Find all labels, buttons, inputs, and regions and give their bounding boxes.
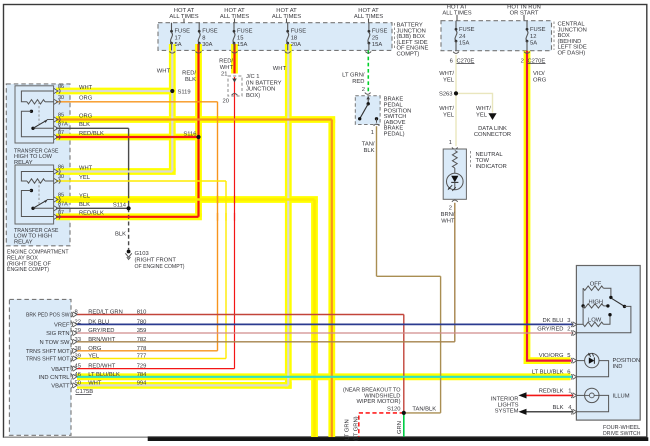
wire LT GRN dashed below S120 (359, 413, 404, 437)
svg-text:21: 21 (221, 71, 227, 78)
svg-text:FUSE: FUSE (202, 28, 218, 35)
wire ORG highlighted vertical (331, 120, 333, 438)
svg-text:YEL: YEL (443, 78, 455, 84)
wire BLK relay 87A vertical (128, 128, 130, 208)
C175B pin45 socket (71, 366, 72, 371)
fuse 18 20A (287, 23, 289, 31)
svg-text:994: 994 (137, 379, 147, 386)
svg-text:HIGH: HIGH (589, 298, 604, 305)
svg-text:29: 29 (75, 327, 81, 334)
bottom-left gray edge (4, 436, 148, 438)
brake pedal position switch box (355, 96, 380, 125)
4wd HIGH resistor (581, 304, 584, 307)
svg-text:INDICATOR: INDICATOR (476, 163, 507, 170)
svg-text:WHT: WHT (79, 165, 93, 171)
svg-text:RED/WHT: RED/WHT (88, 363, 116, 370)
wire RED/LT GRN circuit-810 vertical (403, 315, 405, 413)
indicator exit cup (452, 200, 458, 202)
svg-text:OF ENGINE COMPT): OF ENGINE COMPT) (135, 263, 185, 270)
svg-text:FUSE: FUSE (175, 28, 191, 35)
svg-text:N TOW SW: N TOW SW (39, 339, 70, 346)
relay K1 pin87A chevron (54, 126, 58, 131)
wire DK BLU circuit-780 (77, 323, 574, 325)
svg-text:IND CNTRL: IND CNTRL (39, 374, 71, 381)
wire LT BLU/BLK circuit-784 core (77, 376, 572, 378)
wire RED/BLK relay2 pin87 highlighted (56, 216, 199, 218)
svg-text:VIO/: VIO/ (533, 70, 545, 77)
wire RED/WHT crossing patch at RED/BLK band (234, 213, 236, 221)
indicator entry cup (452, 147, 458, 149)
BJB exit cup WHT (169, 51, 175, 53)
svg-text:HOT IN RUN: HOT IN RUN (507, 3, 541, 10)
svg-text:RELAY: RELAY (14, 240, 33, 246)
wire BLK relay1 pin87A (56, 127, 129, 129)
svg-text:8: 8 (75, 309, 78, 316)
connector C175B module box (9, 299, 71, 435)
svg-text:18: 18 (291, 34, 297, 41)
svg-text:46: 46 (75, 371, 81, 378)
relay K1 transfer case high-to-low internals (21, 91, 53, 102)
svg-text:GRN: GRN (396, 421, 403, 434)
svg-text:FUSE: FUSE (291, 28, 307, 35)
svg-text:HOT AT: HOT AT (276, 7, 297, 14)
svg-text:YEL: YEL (476, 113, 488, 119)
wire YEL circuit-777 vertical (225, 181, 227, 359)
svg-text:22: 22 (75, 318, 81, 325)
4wd illum link to pin4 (576, 395, 608, 411)
wire WHT circuit-994 vertical (287, 44, 289, 385)
C175B pin33 socket (71, 339, 72, 344)
brake switch output contact (375, 117, 378, 120)
svg-text:1: 1 (568, 389, 571, 395)
svg-text:WHT/: WHT/ (439, 105, 454, 112)
svg-text:YEL: YEL (88, 354, 100, 360)
neutral tow indicator box (443, 149, 466, 199)
svg-text:TOW: TOW (476, 157, 490, 164)
svg-text:RELAY: RELAY (14, 160, 33, 166)
svg-text:2: 2 (449, 205, 452, 212)
fuse 8 30A (198, 23, 200, 31)
svg-text:25: 25 (372, 34, 378, 41)
svg-text:LT BLU/BLK: LT BLU/BLK (88, 371, 120, 378)
C175B pin8 socket (71, 312, 72, 317)
wire YEL relay2 pin85 highlighted (56, 198, 315, 201)
4wd illum lamp circle (585, 388, 599, 402)
circuit highlight bands (169, 44, 176, 172)
4wd pin6 socket (571, 374, 572, 379)
svg-text:784: 784 (137, 371, 147, 378)
bottom black bar (148, 437, 649, 441)
svg-text:2: 2 (362, 86, 365, 93)
brake switch plunger arrow (367, 98, 369, 104)
svg-text:YEL: YEL (79, 193, 91, 199)
4wd pin4 socket (571, 409, 572, 414)
svg-text:POSITION: POSITION (613, 357, 641, 364)
svg-text:GRY/RED: GRY/RED (537, 326, 563, 333)
svg-text:30: 30 (58, 95, 64, 101)
wire RED/WHT circuit-729 horizontal (77, 368, 235, 370)
wire ORG crossing patch at RED/BLK band (217, 213, 219, 221)
junction connector J/C 1 box (228, 76, 242, 96)
svg-text:12: 12 (530, 33, 536, 40)
svg-text:ORG: ORG (79, 112, 93, 119)
wire BLK relay2 pin87A (56, 207, 129, 209)
svg-text:2: 2 (521, 57, 524, 64)
svg-text:G103: G103 (135, 250, 149, 257)
svg-text:TAN/BLK: TAN/BLK (412, 405, 436, 412)
wire YEL highlighted vertical (313, 200, 316, 438)
4wd OFF contact (609, 296, 612, 299)
indicator label bracket (470, 151, 472, 168)
svg-text:VBATT: VBATT (51, 384, 70, 390)
C175B pin39 socket (71, 356, 72, 361)
4wd LOW contact (608, 313, 611, 316)
svg-text:WHT: WHT (79, 85, 93, 91)
svg-text:BLK: BLK (364, 148, 375, 154)
wire WHT/YEL data link branch (456, 93, 493, 112)
svg-text:LIGHTS: LIGHTS (498, 401, 519, 408)
svg-text:ALL TIMES: ALL TIMES (354, 13, 383, 20)
svg-text:HOT AT: HOT AT (224, 7, 245, 14)
4wd pin3 socket (571, 322, 572, 327)
wire RED/BLK relay1 pin87 highlighted (56, 136, 199, 138)
svg-text:JUNCTION: JUNCTION (246, 86, 275, 93)
C175B pin46 socket (71, 374, 72, 379)
indicator LED circle (447, 173, 464, 190)
wire TAN/BLK from S120 (404, 412, 441, 414)
svg-text:20: 20 (223, 97, 229, 104)
svg-text:BRN/: BRN/ (441, 211, 455, 218)
wire ORG relay1 pin30 (56, 101, 218, 103)
svg-text:BLK: BLK (115, 232, 126, 238)
relay K1 pin87 chevron (54, 134, 58, 139)
relay K1 pin30 chevron (54, 99, 58, 104)
svg-text:1: 1 (449, 140, 452, 146)
interior lights arrow black (518, 409, 526, 415)
wire RED/BLK illumination (526, 394, 573, 396)
svg-text:RED/LT GRN: RED/LT GRN (88, 309, 123, 316)
svg-text:20A: 20A (291, 41, 301, 48)
svg-text:5: 5 (567, 353, 570, 359)
splice S114 (127, 206, 131, 210)
wire RED/WHT crossing patch at YEL band (234, 196, 236, 204)
svg-text:DRIVE SWITCH: DRIVE SWITCH (603, 430, 641, 437)
svg-text:OFF: OFF (590, 281, 602, 288)
svg-text:GRY/RED: GRY/RED (88, 327, 114, 334)
relay K1 pin86 chevron (54, 88, 58, 93)
svg-text:(IN BATTERY: (IN BATTERY (246, 79, 282, 86)
wire BRN/WHT circuit-782 (77, 341, 455, 343)
splice S120 (402, 411, 406, 415)
svg-text:ALL TIMES: ALL TIMES (442, 9, 471, 16)
svg-text:BLK: BLK (553, 405, 564, 411)
fuse 12 5A (526, 21, 528, 29)
svg-text:S120: S120 (387, 405, 401, 412)
svg-text:87: 87 (58, 130, 64, 136)
C175B pin29 socket (71, 330, 72, 335)
svg-text:777: 777 (137, 354, 147, 360)
splice S263 (454, 91, 458, 95)
svg-text:780: 780 (137, 318, 147, 325)
wire BRN/WHT indicator vertical (454, 203, 456, 342)
svg-text:2: 2 (567, 326, 570, 333)
relay K2 pin85 chevron (54, 197, 58, 202)
svg-text:729: 729 (137, 363, 147, 370)
wire YEL circuit-777 horizontal (77, 358, 226, 360)
relay K2 pin86 chevron (54, 169, 58, 174)
svg-text:ALL TIMES: ALL TIMES (169, 13, 198, 20)
svg-text:3: 3 (567, 317, 570, 324)
svg-text:BLK: BLK (185, 77, 196, 83)
wire VIO/ORG vertical core (527, 51, 572, 361)
svg-text:86: 86 (58, 84, 64, 90)
svg-text:IND: IND (613, 364, 623, 370)
ground G103 symbol (127, 250, 131, 254)
brake switch contact bottom (358, 117, 361, 120)
svg-text:ORG: ORG (533, 77, 547, 84)
4wd wiper pivot (623, 305, 626, 308)
4wd position ind link to pin6 (576, 361, 608, 377)
relay K1 box (15, 86, 54, 143)
svg-text:778: 778 (137, 345, 147, 352)
svg-text:15: 15 (237, 35, 243, 41)
svg-text:WHT: WHT (88, 380, 102, 386)
svg-text:VBATT: VBATT (51, 367, 70, 373)
relay K2 box (15, 165, 54, 224)
svg-text:85: 85 (58, 113, 64, 119)
svg-text:WHT: WHT (273, 66, 287, 72)
svg-text:ORG: ORG (88, 345, 102, 352)
feed tick fuse25 (368, 19, 370, 23)
svg-text:HOT AT: HOT AT (174, 7, 195, 14)
svg-text:359: 359 (137, 327, 147, 334)
wire ORG circuit-778 horizontal (77, 350, 218, 352)
svg-text:86: 86 (58, 165, 64, 171)
svg-text:50: 50 (75, 379, 81, 386)
svg-text:RED: RED (352, 79, 364, 85)
svg-text:DK BLU: DK BLU (88, 319, 109, 325)
wire WHT relay2 pin86 (56, 170, 172, 172)
data link connector arrow (488, 113, 496, 120)
svg-text:810: 810 (137, 309, 147, 316)
wire RED/BLK fuse8 vertical (197, 44, 199, 217)
central junction box (CJB) outline (441, 21, 552, 51)
4wd OFF resistor (583, 286, 603, 290)
svg-text:45: 45 (75, 364, 81, 370)
svg-text:85: 85 (58, 193, 64, 199)
svg-text:YEL: YEL (79, 175, 91, 181)
svg-text:17: 17 (175, 35, 181, 41)
svg-text:WIPER MOTOR): WIPER MOTOR) (356, 398, 400, 405)
svg-text:(RIGHT FRONT: (RIGHT FRONT (135, 257, 177, 264)
svg-text:VREF: VREF (54, 323, 70, 329)
svg-text:TRNS SHFT MOT: TRNS SHFT MOT (26, 356, 70, 363)
svg-text:6: 6 (450, 57, 453, 64)
BJB exit cup RED/BLK (196, 51, 202, 53)
relay K2 transfer case low-to-high internals (21, 172, 53, 182)
wire TAN/BLK brake switch vertical (376, 126, 378, 276)
connector C270E pin2 cup (524, 52, 530, 54)
feed tick fuse17/8 (183, 19, 185, 23)
svg-text:S119: S119 (178, 89, 191, 96)
svg-text:87A: 87A (58, 202, 68, 208)
wire TAN/BLK right vertical (440, 276, 442, 413)
svg-text:39: 39 (75, 353, 81, 360)
svg-text:BOX): BOX) (246, 92, 260, 99)
wire ORG crossing patch at YEL band (217, 196, 219, 204)
BJB exit cup RED/WHT (232, 51, 238, 53)
relay K2 pin87 chevron (54, 214, 58, 219)
C175B pin50 socket (71, 383, 72, 388)
svg-text:ORG: ORG (79, 95, 93, 102)
svg-text:38: 38 (75, 345, 81, 352)
svg-text:ENGINE COMPT): ENGINE COMPT) (7, 266, 49, 273)
BJB exit cup WHT994 (285, 51, 291, 53)
svg-text:RED/BLK: RED/BLK (79, 130, 104, 137)
svg-text:15A: 15A (237, 42, 247, 48)
svg-text:FUSE: FUSE (530, 26, 546, 33)
svg-text:WHT/: WHT/ (439, 70, 454, 77)
fuse 25 15A (368, 23, 370, 31)
fuse 17 5A (171, 23, 173, 31)
wire TAN/BLK horizontal jog (377, 275, 441, 277)
svg-text:FUSE: FUSE (237, 28, 253, 35)
wire BLK ground 4wd switch (526, 411, 573, 413)
wire RED/WHT circuit-729 vertical highlighted segment (233, 44, 235, 74)
svg-text:5A: 5A (530, 41, 537, 47)
brake switch contact top (367, 102, 370, 105)
wire ORG circuit-778 vertical (217, 102, 219, 351)
wire LT GRN/RED dashed vertical (367, 50, 369, 92)
svg-text:PEDAL): PEDAL) (384, 131, 405, 138)
svg-text:COMPT): COMPT) (397, 51, 420, 58)
wire WHT circuit-994 horizontal core (77, 384, 288, 386)
svg-text:33: 33 (75, 336, 81, 343)
svg-text:ALL TIMES: ALL TIMES (220, 13, 249, 20)
wire GRN below S120 (403, 413, 405, 437)
svg-text:ILLUM: ILLUM (613, 393, 630, 399)
svg-text:RED/BLK: RED/BLK (539, 388, 564, 395)
svg-text:30: 30 (58, 174, 64, 180)
4wd switch resistor bus (582, 288, 584, 324)
svg-text:SIG RTN: SIG RTN (46, 330, 69, 337)
svg-text:DK BLU: DK BLU (543, 318, 564, 324)
svg-text:LT GRN: LT GRN (344, 419, 351, 440)
svg-text:1: 1 (371, 130, 374, 136)
svg-text:WHT: WHT (441, 219, 455, 225)
svg-text:RED/: RED/ (219, 58, 233, 65)
wire YEL crossing patch at RED/BLK band (225, 213, 227, 221)
feed tick fuse15 (234, 19, 236, 23)
connector C270E pin6 cup (453, 52, 459, 54)
svg-text:FUSE: FUSE (372, 28, 388, 35)
4wd pin2 socket (571, 330, 572, 335)
svg-text:LT GRN/: LT GRN/ (342, 72, 365, 79)
brake switch exit cup (374, 124, 380, 126)
svg-text:VIO/ORG: VIO/ORG (539, 352, 564, 359)
svg-text:5A: 5A (175, 42, 182, 48)
feed tick fuse24 (456, 15, 458, 21)
J/C 1 entry arrow (232, 79, 237, 83)
svg-text:LT BLU/BLK: LT BLU/BLK (532, 369, 564, 376)
svg-text:15A: 15A (459, 41, 469, 47)
svg-text:OF DASH): OF DASH) (558, 50, 586, 57)
cjb label bracket (553, 22, 555, 51)
svg-text:6: 6 (567, 369, 570, 376)
wire ORG relay1 pin85 highlighted (56, 118, 332, 120)
indicator resistor (452, 151, 457, 169)
svg-text:LOW: LOW (588, 316, 602, 323)
svg-text:BRN/WHT: BRN/WHT (88, 336, 116, 343)
svg-text:J/C 1: J/C 1 (246, 73, 260, 80)
wire GRY/RED circuit-359 (77, 332, 574, 334)
4wd pin1 socket (571, 393, 572, 398)
brake switch arm (360, 104, 369, 119)
BJB exit cup LT GRN/RED (365, 51, 371, 53)
wire RED/WHT circuit-729 vertical (234, 77, 236, 369)
svg-text:BLK: BLK (79, 202, 90, 208)
svg-text:S116: S116 (183, 130, 196, 137)
svg-text:TRNS SHFT MOT: TRNS SHFT MOT (26, 348, 70, 355)
wire BLK dashed to G103 (128, 208, 130, 249)
feed tick fuse18 (286, 19, 288, 23)
svg-text:BLK: BLK (79, 122, 90, 128)
svg-text:SYSTEM: SYSTEM (495, 407, 519, 414)
svg-text:8: 8 (202, 34, 205, 41)
4wd wiper to pin2 (576, 306, 631, 332)
svg-text:OR START: OR START (510, 9, 539, 16)
fuse 15 15A (233, 23, 235, 31)
svg-text:YEL: YEL (443, 113, 455, 119)
svg-text:FUSE: FUSE (459, 26, 475, 33)
battery junction box (BJB) outline (158, 23, 392, 51)
engine compartment relay box outline (6, 84, 70, 246)
bjb label bracket (394, 23, 396, 50)
svg-text:87: 87 (58, 210, 64, 216)
svg-text:30A: 30A (202, 41, 212, 48)
svg-text:782: 782 (137, 336, 147, 343)
relay K1 pin85 chevron (54, 117, 58, 122)
wire WHT relay1 pin86 (56, 90, 172, 92)
svg-text:HOT AT: HOT AT (358, 7, 379, 14)
svg-text:RED/BLK: RED/BLK (79, 210, 104, 217)
svg-text:WHT/: WHT/ (476, 105, 491, 112)
brake switch entry cup (365, 93, 371, 95)
four-wheel drive switch box (576, 266, 640, 421)
4wd HIGH contact (606, 304, 609, 307)
svg-text:ALL TIMES: ALL TIMES (272, 13, 301, 20)
svg-text:S263: S263 (439, 91, 453, 98)
svg-text:WHT: WHT (157, 69, 171, 75)
svg-text:87A: 87A (58, 122, 68, 128)
wire RED/LT GRN circuit-810 (77, 314, 404, 316)
fuse 24 15A (455, 21, 457, 29)
svg-text:HOT AT: HOT AT (447, 3, 468, 10)
4wd position ind LED circle (585, 353, 599, 367)
svg-text:RED/: RED/ (182, 70, 196, 77)
4wd LOW resistor (583, 322, 603, 326)
svg-text:WHT: WHT (220, 65, 234, 71)
svg-text:15A: 15A (372, 42, 382, 48)
wire YEL relay2 pin30 (56, 180, 226, 182)
svg-text:BRK PED POS SW: BRK PED POS SW (26, 312, 70, 319)
relay K2 pin87A chevron (54, 206, 58, 211)
svg-text:(LT GRN): (LT GRN) (353, 416, 360, 441)
J/C 1 exit cup (232, 94, 238, 96)
C175B pin22 socket (71, 322, 72, 327)
svg-text:TAN/: TAN/ (362, 141, 375, 148)
4wd wiper arm (612, 298, 625, 306)
